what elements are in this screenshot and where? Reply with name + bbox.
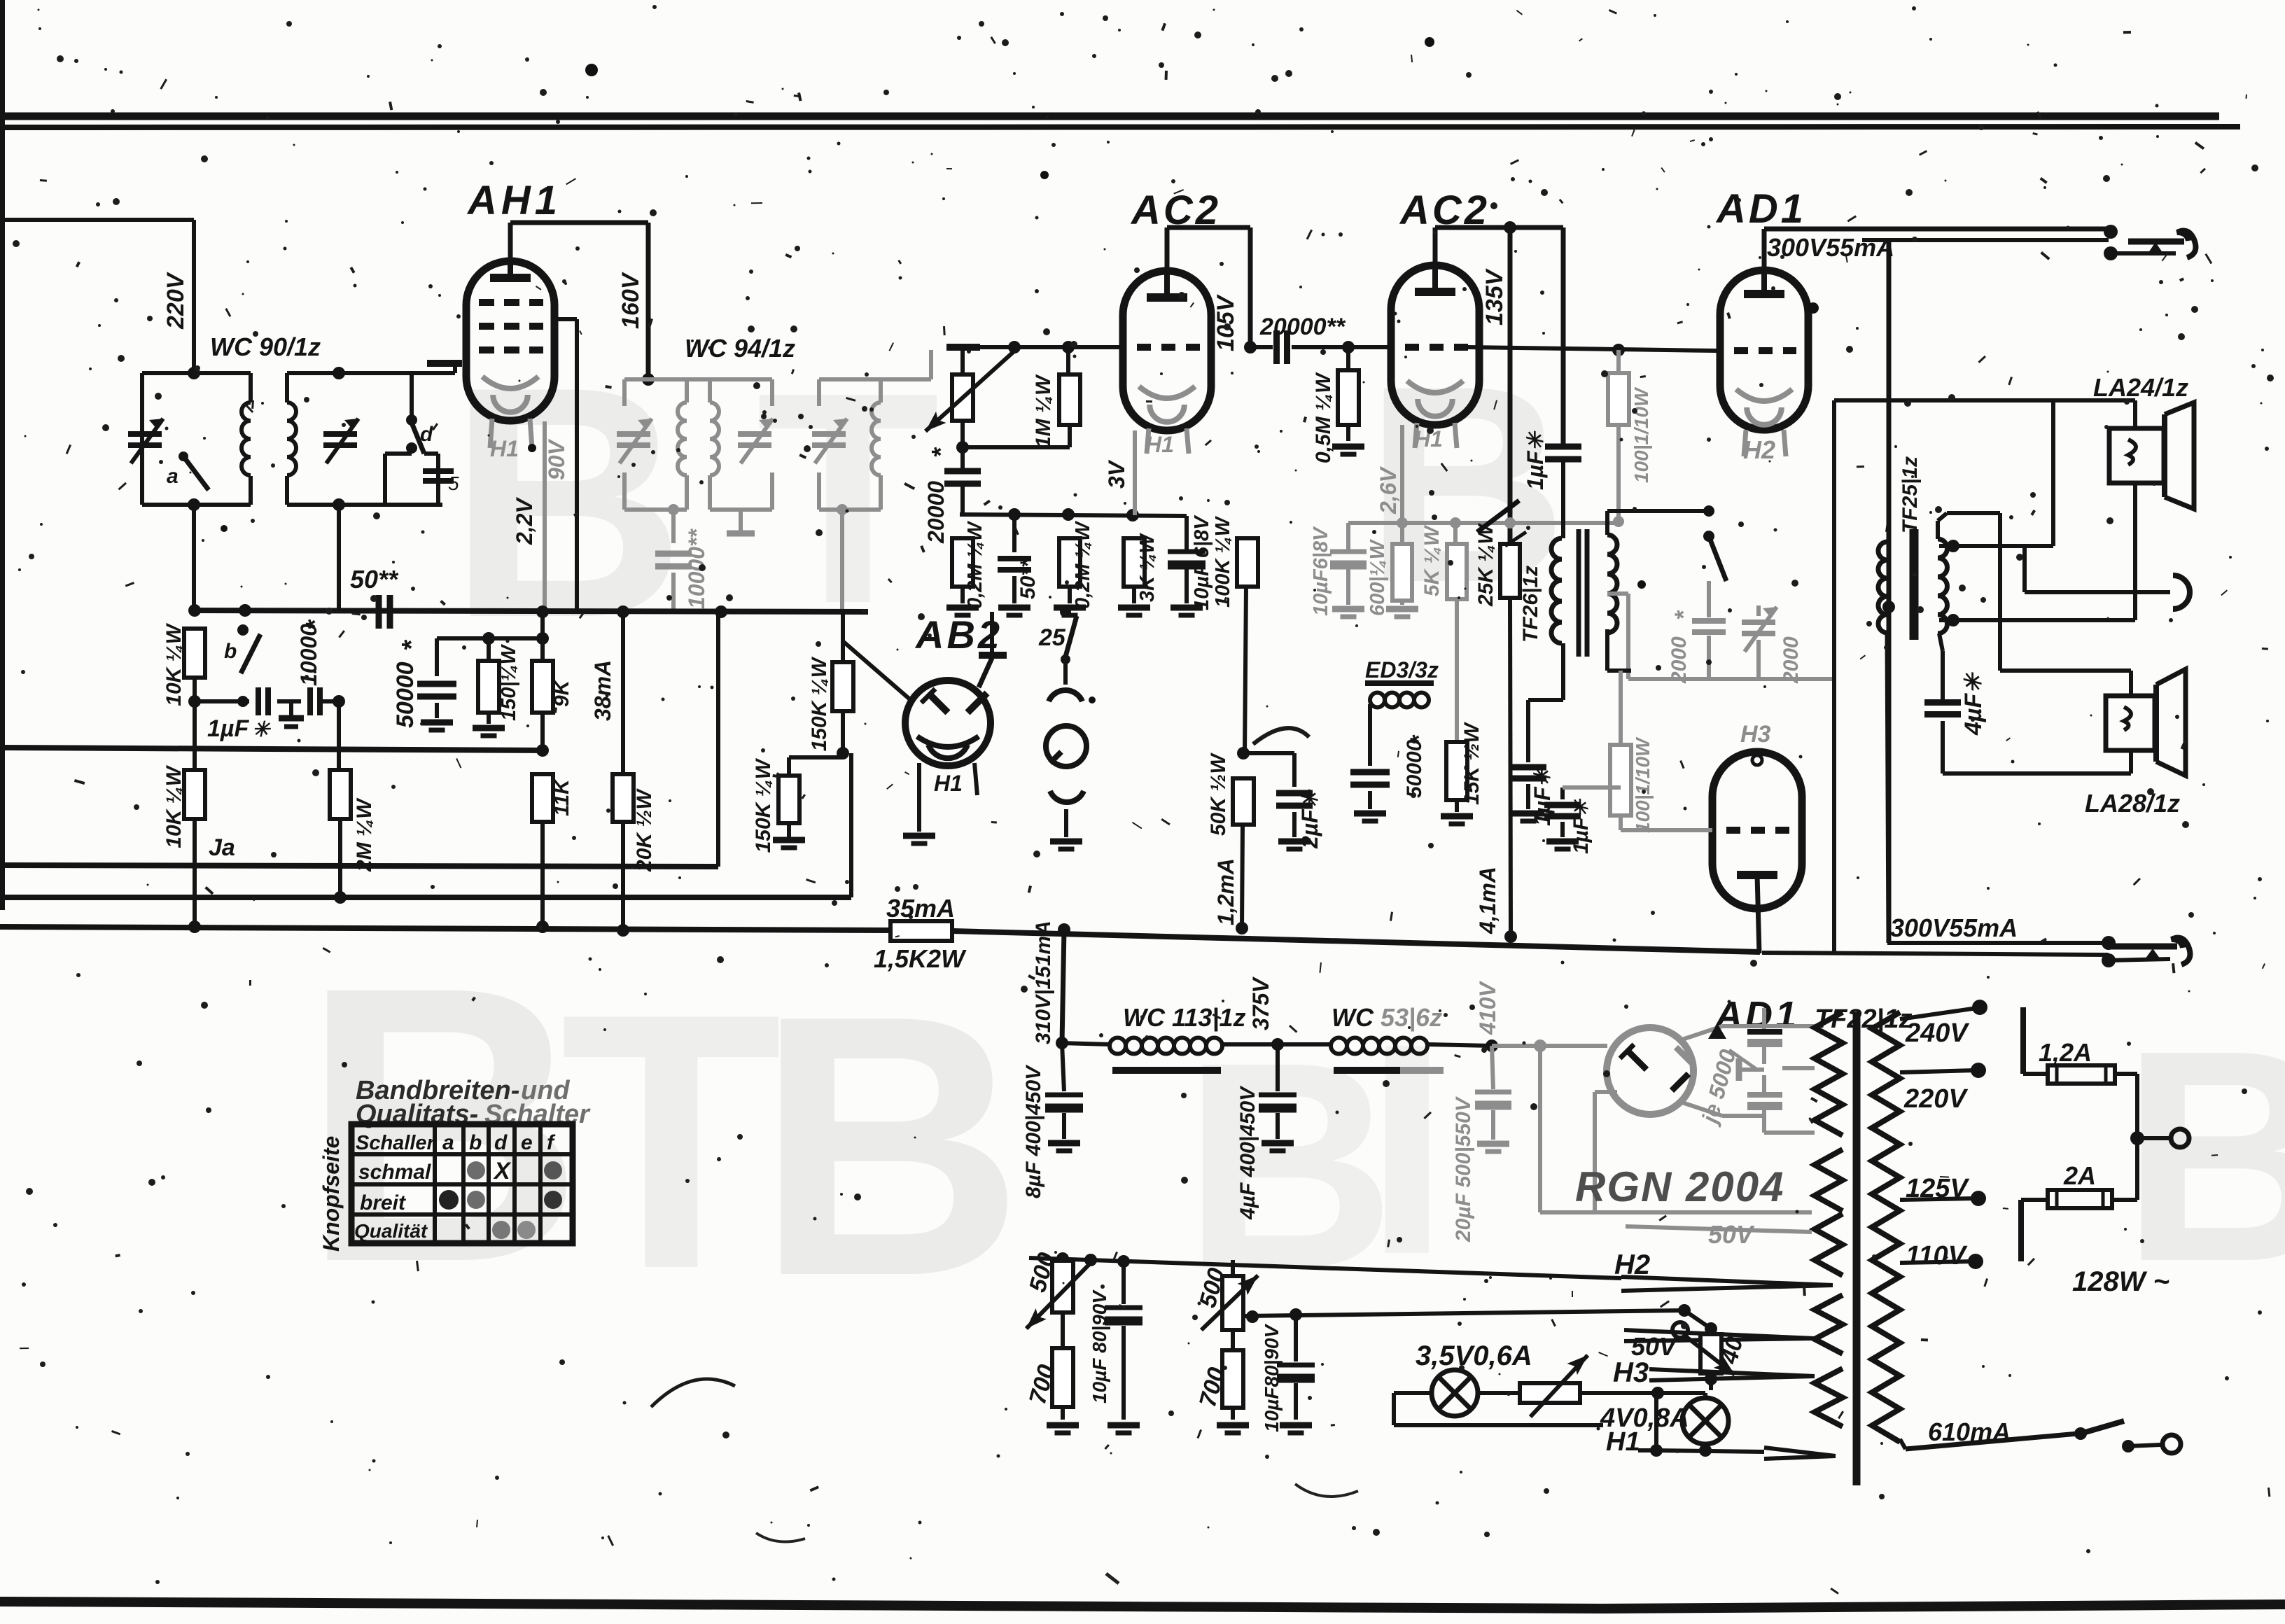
svg-text:e: e bbox=[521, 1131, 533, 1154]
svg-text:H1: H1 bbox=[934, 771, 963, 796]
svg-text:135V: 135V bbox=[1481, 267, 1508, 325]
resistor 1,5K 2W 35mA bbox=[874, 894, 967, 973]
junction bbox=[333, 367, 345, 379]
wire anode AC2 first bbox=[1167, 227, 1257, 353]
svg-text:LA28/1z: LA28/1z bbox=[2085, 789, 2180, 818]
capacitor 1uF* TF26 in bbox=[1523, 430, 1581, 490]
potentiometer 500 first bbox=[1021, 1249, 1093, 1333]
resistor 700 first bbox=[1024, 1312, 1079, 1433]
tap 610mA switch bbox=[1900, 1417, 2181, 1453]
potentiometer volume bbox=[921, 348, 1018, 447]
svg-text:4,1mA: 4,1mA bbox=[1475, 867, 1500, 934]
wire 300V55mA return bbox=[1762, 679, 2109, 955]
svg-text:8µF 400|450V: 8µF 400|450V bbox=[1022, 1064, 1045, 1198]
svg-text:240V: 240V bbox=[1905, 1018, 1969, 1048]
svg-text:2000: 2000 bbox=[1780, 636, 1803, 684]
svg-text:AD1: AD1 bbox=[1715, 186, 1806, 232]
jack socket bbox=[1050, 791, 1084, 849]
junction bbox=[715, 605, 727, 618]
svg-text:20000**: 20000** bbox=[1259, 314, 1346, 340]
svg-text:T: T bbox=[560, 938, 783, 1345]
wire rear jack bbox=[2025, 546, 2190, 609]
svg-text:1,2A: 1,2A bbox=[2039, 1038, 2092, 1067]
resistor 700 second bbox=[1194, 1330, 1249, 1433]
cathode AD1 bbox=[1736, 389, 1792, 464]
svg-text:Qualität: Qualität bbox=[354, 1220, 428, 1242]
capacitor 1uF* bottom bbox=[1510, 766, 1555, 826]
tap 110V bbox=[1900, 1241, 1983, 1270]
switch b bbox=[224, 624, 260, 707]
resistor 100K 1/4W bbox=[1212, 347, 1258, 753]
capacitor 8uF 400/450V bbox=[1022, 1043, 1083, 1198]
svg-text:11K: 11K bbox=[550, 778, 573, 816]
coil L2 bbox=[287, 402, 296, 475]
svg-text:50V: 50V bbox=[1708, 1220, 1755, 1249]
wire H2 line bbox=[1029, 1249, 1833, 1291]
svg-text:b: b bbox=[224, 640, 237, 663]
wire anode AC2 second bbox=[1435, 221, 1563, 544]
resistor 3K 1/4W bbox=[1118, 515, 1159, 615]
capacitor 20000* bbox=[923, 447, 981, 544]
svg-text:WC 90/1z: WC 90/1z bbox=[210, 332, 321, 361]
coil ED3/3z bbox=[1365, 657, 1439, 766]
transformer TF25/1z bbox=[1878, 456, 1948, 640]
TF22 primary zigzags bbox=[1815, 1012, 1843, 1427]
svg-text:d: d bbox=[494, 1131, 508, 1154]
wire AB2 grid bbox=[843, 641, 911, 701]
label je 5000 bbox=[1696, 1023, 1757, 1128]
svg-text:125V: 125V bbox=[1906, 1174, 1969, 1203]
svg-text:ED3/3z: ED3/3z bbox=[1365, 657, 1439, 682]
svg-text:WC 94/1z: WC 94/1z bbox=[685, 334, 795, 363]
wire bus AVC bbox=[0, 612, 718, 867]
wire H1 line bbox=[1603, 1394, 1836, 1459]
svg-text:2µF✳: 2µF✳ bbox=[1297, 789, 1322, 849]
svg-text:100K ¼W: 100K ¼W bbox=[1212, 515, 1234, 608]
resistor 9K bbox=[532, 605, 573, 757]
svg-text:1µF✳: 1µF✳ bbox=[1523, 430, 1548, 490]
resistor 25K 1/4W bbox=[1474, 523, 1520, 937]
lamp 4V 0,8A bbox=[1580, 1387, 1728, 1450]
svg-text:0,5M ¼W: 0,5M ¼W bbox=[1312, 372, 1335, 463]
capacitor 5 bbox=[385, 454, 459, 505]
svg-text:2,6V: 2,6V bbox=[1376, 466, 1401, 514]
fuse 1,2A bbox=[2023, 1007, 2137, 1138]
cathode AH1 bbox=[482, 377, 538, 461]
wire AB2 cathode bbox=[903, 763, 977, 843]
svg-text:50**: 50** bbox=[1016, 559, 1040, 599]
wire cathode drop bbox=[543, 421, 547, 610]
svg-text:H1: H1 bbox=[1606, 1427, 1640, 1457]
svg-text:20µF 500|550V: 20µF 500|550V bbox=[1452, 1095, 1475, 1242]
resistor 100 1/10W H3 bbox=[1610, 671, 1654, 833]
wire H3 line bbox=[1243, 1304, 1815, 1341]
wire bbox=[0, 220, 194, 373]
svg-text:Schaller: Schaller bbox=[356, 1132, 436, 1154]
svg-text:5K ¼W: 5K ¼W bbox=[1420, 524, 1444, 596]
capacitor 50** bbox=[350, 565, 399, 629]
capacitor 50** bbox=[998, 514, 1040, 615]
capacitor variable 2000 bbox=[1742, 605, 1803, 684]
svg-text:35mA: 35mA bbox=[886, 894, 955, 923]
switch d bbox=[406, 373, 433, 454]
junction bbox=[642, 373, 655, 386]
svg-text:1M ¼W: 1M ¼W bbox=[1032, 374, 1055, 448]
svg-text:3,5V0,6A: 3,5V0,6A bbox=[1416, 1340, 1532, 1371]
resistor 1M 1/4W bbox=[956, 347, 1080, 454]
junction bbox=[188, 920, 201, 933]
tube AB2 bbox=[905, 612, 1007, 766]
svg-text:50V: 50V bbox=[1631, 1332, 1678, 1361]
svg-text:410V: 410V bbox=[1475, 981, 1500, 1035]
wire TF26 secondary top bbox=[1607, 505, 1714, 535]
svg-text:20000: 20000 bbox=[923, 481, 949, 544]
cathode AC2 first bbox=[1135, 386, 1195, 515]
resistor 50K 1/2W bbox=[1207, 747, 1254, 934]
svg-text:✳: ✳ bbox=[252, 718, 272, 741]
capacitor je5000 top bbox=[1747, 1008, 1782, 1064]
wire grid AC2 bbox=[980, 341, 1124, 353]
svg-text:375V: 375V bbox=[1248, 976, 1273, 1030]
svg-text:WC: WC bbox=[1332, 1003, 1374, 1032]
svg-text:a: a bbox=[167, 465, 179, 488]
wire TF26 secondary bottom bbox=[1607, 629, 1631, 671]
junction bbox=[188, 604, 201, 617]
wire anode AD1 to output bbox=[1764, 229, 2109, 268]
potentiometer 40 bbox=[1631, 1322, 1749, 1385]
wire TF25 primary bbox=[1887, 522, 1889, 943]
svg-text:15K ½W: 15K ½W bbox=[1460, 722, 1483, 805]
svg-text:10µF6|8V: 10µF6|8V bbox=[1310, 526, 1332, 616]
wire bbox=[193, 678, 197, 770]
tap 240V bbox=[1900, 1000, 1987, 1048]
fuse 2A bbox=[2021, 1138, 2137, 1261]
svg-text:*: * bbox=[926, 447, 955, 458]
svg-text:2,2V: 2,2V bbox=[512, 497, 537, 545]
svg-text:90V: 90V bbox=[544, 438, 569, 480]
svg-text:300V55mA: 300V55mA bbox=[1890, 913, 2018, 942]
svg-text:TF25|1z: TF25|1z bbox=[1899, 456, 1922, 533]
resistor 100 1/10W grid bbox=[1608, 350, 1652, 521]
svg-text:300V55mA: 300V55mA bbox=[1767, 233, 1894, 262]
svg-text:Ja: Ja bbox=[209, 834, 235, 861]
junction bbox=[188, 695, 201, 708]
wire screen AH1 bbox=[554, 319, 577, 610]
capacitor 50000* bbox=[392, 638, 456, 730]
svg-text:310V|151mA: 310V|151mA bbox=[1032, 920, 1055, 1044]
svg-text:4µF✳: 4µF✳ bbox=[1960, 672, 1987, 736]
wire tone bottom bbox=[1607, 594, 1833, 679]
wire bbox=[337, 505, 341, 610]
svg-text:AH1: AH1 bbox=[466, 178, 561, 223]
resistor 600 1/4W bbox=[1367, 523, 1418, 617]
junction bbox=[239, 604, 251, 617]
junction bbox=[333, 695, 345, 708]
terminal output top bbox=[2104, 225, 2195, 260]
resistor 0,2M 1/4W a bbox=[946, 514, 986, 615]
svg-text:10µF 80|90V: 10µF 80|90V bbox=[1089, 1289, 1110, 1403]
svg-text:3V: 3V bbox=[1104, 459, 1129, 489]
table Bandbreiten bbox=[319, 1076, 591, 1252]
svg-text:1,5K2W: 1,5K2W bbox=[874, 944, 967, 973]
svg-text:110V: 110V bbox=[1906, 1241, 1968, 1270]
capacitor 10uF 6/8V bbox=[1168, 514, 1213, 615]
svg-text:105V: 105V bbox=[1213, 293, 1239, 351]
svg-text:10µF80|90V: 10µF80|90V bbox=[1261, 1323, 1283, 1432]
resistor 150K 1/4W ground bbox=[752, 757, 843, 853]
svg-text:150K ¼W: 150K ¼W bbox=[808, 656, 831, 751]
svg-text:1,2mA: 1,2mA bbox=[1213, 858, 1238, 925]
resistor 20K 1/2W bbox=[613, 605, 656, 937]
svg-text:220V: 220V bbox=[162, 271, 189, 330]
svg-text:Knopfseite: Knopfseite bbox=[319, 1136, 344, 1252]
svg-text:X: X bbox=[493, 1158, 512, 1184]
wire cathode line bbox=[1348, 425, 1624, 528]
svg-text:100|1/10W: 100|1/10W bbox=[1630, 386, 1652, 483]
svg-text:100|1/10W: 100|1/10W bbox=[1632, 736, 1654, 833]
svg-text:10K ¼W: 10K ¼W bbox=[162, 622, 186, 706]
svg-text:AB2: AB2 bbox=[914, 612, 1002, 657]
ground je5000 bbox=[1739, 1058, 1764, 1081]
capacitor variable C2 bbox=[323, 431, 357, 437]
resistor 10K 1/4W upper bbox=[162, 622, 205, 706]
wire B+ feed bbox=[1862, 240, 2109, 943]
wire TF25 tap2 bbox=[1939, 483, 2135, 626]
resistor 10K 1/4W lower bbox=[162, 764, 205, 927]
TF22 secondary zigzag bbox=[1872, 1012, 1900, 1442]
svg-text:50K ½W: 50K ½W bbox=[1207, 752, 1230, 836]
svg-text:schmal: schmal bbox=[358, 1161, 431, 1184]
junction bbox=[188, 498, 200, 511]
svg-text:1µF: 1µF bbox=[207, 715, 249, 742]
wire AVC row bbox=[960, 508, 1187, 521]
svg-text:d: d bbox=[420, 423, 433, 446]
resistor 11K bbox=[532, 774, 573, 933]
resistor 0,5M 1/4W bbox=[1312, 341, 1364, 463]
svg-text:H2: H2 bbox=[1743, 435, 1775, 464]
switch 25 bbox=[1038, 606, 1082, 701]
capacitor 20000** coupling bbox=[1250, 314, 1391, 364]
lamp 3,5V 0,6A bbox=[1394, 1340, 1603, 1425]
svg-text:5: 5 bbox=[448, 472, 459, 494]
capacitor 50000* bbox=[1350, 734, 1432, 821]
tube AH1 bbox=[466, 261, 554, 421]
wire bus AVC 2 bbox=[0, 753, 851, 897]
capacitor 4uF* bbox=[1924, 633, 1987, 773]
svg-text:150|¼W: 150|¼W bbox=[498, 643, 520, 721]
resistor 2M 1/4W bbox=[330, 770, 376, 904]
svg-text:10K ¼W: 10K ¼W bbox=[162, 764, 186, 848]
wire TF25 tap1 bbox=[1834, 400, 2135, 679]
svg-text:128W ~: 128W ~ bbox=[2072, 1266, 2169, 1297]
svg-text:2M ¼W: 2M ¼W bbox=[353, 797, 376, 872]
svg-text:10000: 10000 bbox=[296, 624, 321, 686]
capacitor je5000 bottom bbox=[1747, 1068, 1815, 1133]
svg-text:4µF 400|450V: 4µF 400|450V bbox=[1236, 1085, 1259, 1220]
svg-text:610mA: 610mA bbox=[1928, 1417, 2011, 1446]
tube H3 bbox=[1621, 721, 1802, 953]
svg-text:20K ½W: 20K ½W bbox=[633, 788, 656, 872]
svg-text:a: a bbox=[442, 1131, 454, 1154]
tap 220V bbox=[1900, 1063, 1986, 1114]
svg-text:38mA: 38mA bbox=[590, 660, 615, 721]
wire grid AD1 bbox=[1468, 344, 1717, 356]
svg-text:*: * bbox=[397, 639, 426, 651]
junction bbox=[188, 367, 200, 379]
IF tank C bbox=[812, 350, 931, 610]
resistor 15K 1/2W bbox=[1441, 722, 1483, 824]
resistor 150 1/4W bbox=[437, 632, 549, 736]
grid cap AH1 bbox=[427, 363, 462, 373]
capacitor 2000* bbox=[1668, 610, 1726, 684]
tube AC2 second bbox=[1391, 265, 1479, 425]
resistor 5K 1/4W bbox=[1420, 523, 1467, 742]
choke WC53/6z bbox=[1331, 1003, 1498, 1070]
capacitor 1uF* bbox=[195, 687, 339, 742]
switch a bbox=[167, 451, 209, 490]
svg-text:RGN 2004: RGN 2004 bbox=[1575, 1163, 1784, 1210]
svg-text:2A: 2A bbox=[2063, 1161, 2096, 1190]
wire bus B- bbox=[0, 927, 1760, 952]
capacitor 1uF* H3 bbox=[1544, 787, 1621, 854]
svg-text:1µF✳: 1µF✳ bbox=[1570, 798, 1593, 854]
grid cap node bbox=[946, 347, 980, 374]
wire bbox=[338, 610, 340, 701]
IF tank B bbox=[710, 379, 773, 533]
banner 50V gray bbox=[1626, 1220, 1812, 1249]
transformer TF22 core bbox=[1853, 1012, 1861, 1485]
coil L1 bbox=[242, 402, 251, 475]
potentiometer 500 second bbox=[1194, 1260, 1263, 1330]
banner H3 bbox=[1613, 1357, 1815, 1390]
svg-text:600|¼W: 600|¼W bbox=[1367, 538, 1389, 616]
capacitor 20uF 500/550V bbox=[1452, 1046, 1511, 1242]
svg-text:H2: H2 bbox=[1614, 1249, 1650, 1280]
svg-text:50**: 50** bbox=[350, 565, 399, 594]
svg-text:I: I bbox=[1365, 981, 1448, 1317]
wire bus ground 1 bbox=[0, 748, 543, 750]
svg-text:H3: H3 bbox=[1613, 1357, 1649, 1388]
svg-text:breit: breit bbox=[360, 1191, 407, 1214]
capacitor 4uF 400/450V bbox=[1236, 1044, 1297, 1220]
svg-text:0,2M ¼W: 0,2M ¼W bbox=[1072, 520, 1094, 609]
svg-text:b: b bbox=[469, 1131, 482, 1154]
switch tone bbox=[1703, 531, 1726, 617]
tube AD1 rectifier bbox=[1492, 1028, 1693, 1114]
junction bbox=[1058, 923, 1070, 936]
junction bbox=[333, 498, 345, 511]
capacitor 10uF 80/90V second bbox=[1261, 1308, 1315, 1433]
tube AD1 bbox=[1720, 268, 1808, 430]
svg-text:9K: 9K bbox=[550, 678, 573, 707]
resistor 150K 1/4W right bbox=[808, 612, 853, 759]
svg-text:53|6z: 53|6z bbox=[1381, 1003, 1442, 1032]
svg-text:LA24/1z: LA24/1z bbox=[2093, 373, 2188, 402]
svg-text:10µF 6|8V: 10µF 6|8V bbox=[1191, 514, 1213, 610]
rheostat dim bbox=[1520, 1350, 1593, 1417]
wire bus 50** line bbox=[193, 610, 868, 612]
wire bbox=[287, 373, 442, 505]
transformer TF26/1z bbox=[1519, 462, 1617, 762]
svg-text:B: B bbox=[756, 939, 1024, 1353]
svg-text:2000: 2000 bbox=[1668, 636, 1691, 684]
svg-text:50000: 50000 bbox=[1403, 739, 1426, 798]
wire bbox=[142, 373, 251, 505]
terminal mains bbox=[2130, 1129, 2189, 1147]
capacitor 10000** bbox=[655, 528, 709, 610]
speaker LA24/1z bbox=[2093, 373, 2194, 509]
svg-text:H1: H1 bbox=[490, 436, 519, 461]
svg-text:*: * bbox=[1406, 734, 1432, 745]
speaker LA28/1z bbox=[1943, 669, 2186, 818]
svg-text:TF26|1z: TF26|1z bbox=[1519, 566, 1542, 643]
svg-text:50000: 50000 bbox=[392, 661, 419, 728]
wire TF25 sec top bbox=[1938, 513, 2131, 671]
svg-text:25: 25 bbox=[1038, 624, 1066, 651]
wire rectifier anodes bbox=[1680, 1026, 1815, 1116]
svg-text:H3: H3 bbox=[1740, 721, 1771, 748]
svg-text:160V: 160V bbox=[617, 271, 644, 329]
svg-text:220V: 220V bbox=[1903, 1084, 1968, 1114]
terminal output bottom bbox=[2102, 936, 2190, 967]
capacitor 10uF 80/90V first bbox=[1089, 1261, 1142, 1433]
svg-text:0,2M ¼W: 0,2M ¼W bbox=[964, 520, 986, 609]
jack plug bbox=[1046, 726, 1086, 766]
svg-text:150K ¼W: 150K ¼W bbox=[752, 757, 775, 853]
wire rectifier filament return bbox=[1540, 1046, 1812, 1212]
cathode AC2 second bbox=[1407, 381, 1463, 451]
capacitor 2uF* bbox=[1243, 753, 1322, 849]
capacitor 10uF 6/8V second bbox=[1310, 523, 1367, 617]
wire anode AH1 to 160V bbox=[510, 223, 648, 379]
wire B+ vertical bbox=[1056, 930, 1068, 1049]
svg-text:*: * bbox=[1670, 610, 1697, 620]
svg-text:3K ¼W: 3K ¼W bbox=[1136, 533, 1159, 602]
wire bbox=[337, 701, 341, 770]
resistor 0,2M 1/4W b bbox=[1054, 514, 1094, 615]
tube AC2 first bbox=[1123, 271, 1211, 430]
wire bbox=[192, 505, 196, 610]
junction bbox=[1504, 930, 1517, 943]
svg-text:25K ¼W: 25K ¼W bbox=[1474, 523, 1497, 607]
IF tank A bbox=[617, 379, 772, 543]
capacitor variable C-ant bbox=[128, 402, 163, 476]
svg-text:H1: H1 bbox=[1145, 432, 1174, 457]
svg-text:*: * bbox=[300, 619, 329, 630]
tap 125V bbox=[1900, 1174, 1986, 1206]
choke WC113/1z bbox=[1062, 1003, 1331, 1070]
